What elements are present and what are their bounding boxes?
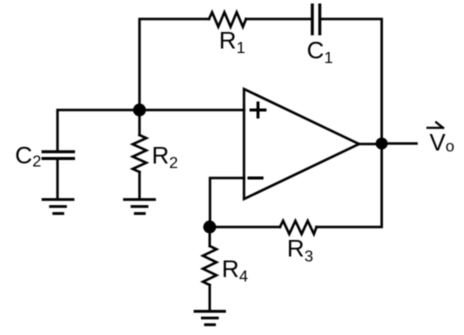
ground (R4) (195, 311, 225, 324)
op-amp U1 (244, 89, 359, 199)
capacitor C2 (43, 152, 74, 159)
node B junction dot (205, 222, 215, 232)
svg-text:R3: R3 (287, 236, 313, 266)
resistor R2 (133, 135, 147, 172)
op-amp + input symbol (251, 103, 265, 117)
capacitor C1 (312, 5, 320, 34)
vector arrow over Vo (428, 127, 444, 129)
wire node A down to R2 (138, 110, 141, 135)
svg-text:Vo: Vo (430, 130, 455, 157)
resistor R4 (203, 246, 217, 285)
svg-text:C1: C1 (307, 38, 333, 68)
op-amp - input symbol (249, 177, 262, 180)
wire node A to op-amp + input (140, 109, 245, 112)
wire R1 to capacitor C1 (246, 18, 312, 21)
wire C2 to ground (56, 159, 59, 199)
svg-text:C2: C2 (15, 143, 41, 171)
output node dot (377, 139, 387, 149)
svg-text:R2: R2 (152, 142, 178, 172)
resistor R3 (280, 221, 317, 234)
wire op-amp - input left and down to node B (210, 178, 244, 227)
wire op-amp output to node (359, 143, 382, 146)
wire R4 to ground (208, 285, 211, 311)
ground (C2) (43, 200, 73, 214)
ground (R2) (125, 200, 155, 214)
svg-text:R4: R4 (222, 256, 248, 286)
wire output node down to bottom-right corner and left to R3 (317, 144, 382, 228)
wire C1 to top-right corner and down to output node (320, 19, 382, 144)
wire R3 to node B (210, 226, 280, 229)
resistor R1 (209, 12, 246, 27)
node A junction dot (134, 105, 144, 115)
wire R2 to ground (138, 172, 141, 199)
wire node B down to R4 (208, 227, 211, 246)
svg-text:R1: R1 (219, 27, 245, 57)
wire node A left to capacitor C2 (58, 110, 140, 151)
wire output node to Vo stub (382, 142, 417, 145)
wire node A up to top-left corner and right to R1 (140, 19, 210, 110)
